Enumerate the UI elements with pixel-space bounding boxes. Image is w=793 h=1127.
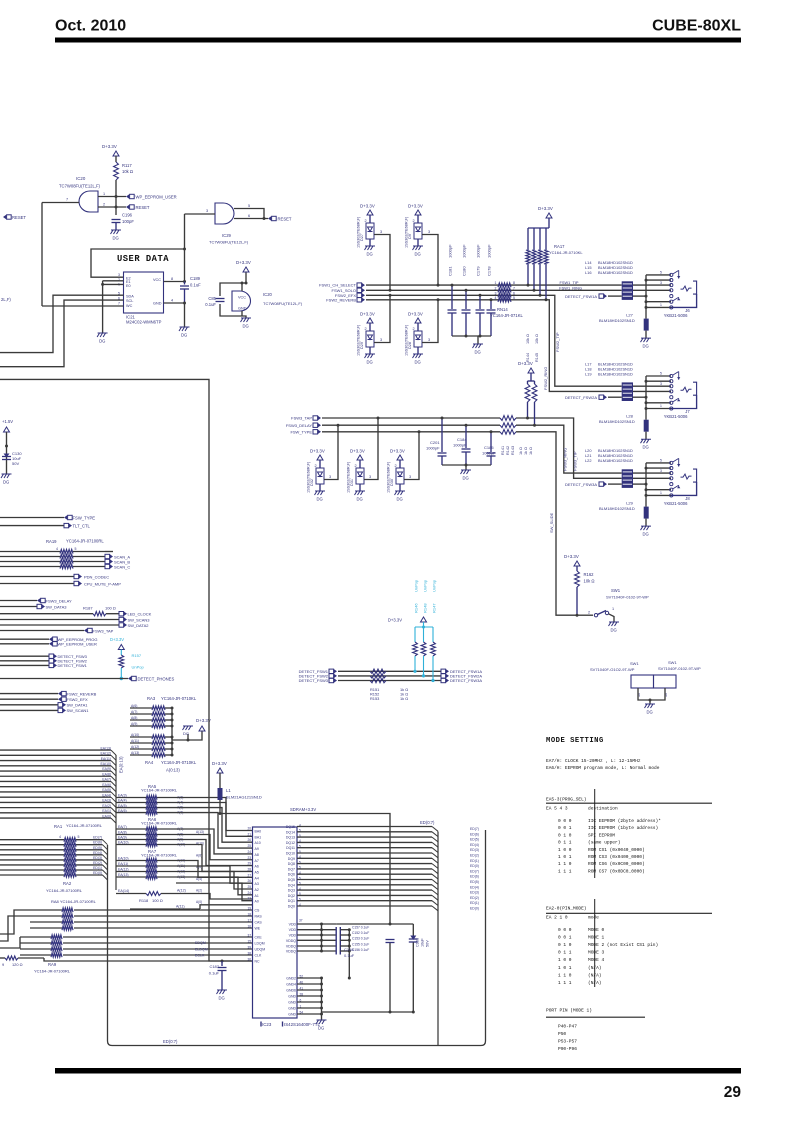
svg-text:C151: C151 [416,938,420,947]
svg-text:1: 1 [660,404,662,408]
resistor R144 pullup [528,368,534,373]
svg-text:3: 3 [428,230,430,234]
jack plug squiggle [681,286,692,291]
frame bottom with rounded corners [108,830,486,1046]
svg-text:0 0 1: 0 0 1 [558,825,572,831]
svg-text:8: 8 [171,277,173,281]
svg-text:YC164-JR-071KL: YC164-JR-071KL [490,313,523,318]
wire IC29 input pin3 [185,213,216,215]
svg-text:EA(9): EA(9) [102,767,111,771]
svg-text:6: 6 [513,291,515,295]
svg-text:DG: DG [611,628,617,633]
svg-text:FSW2_REVERB: FSW2_REVERB [326,297,356,302]
ground (C201/C184/C185) [461,470,472,474]
wire D28 pin3 [422,300,438,343]
svg-text:(N/A): (N/A) [588,972,602,978]
svg-text:EA(2): EA(2) [102,804,111,808]
svg-text:VDDQ: VDDQ [286,950,296,954]
svg-text:3: 3 [118,273,120,277]
wire RA4 common to power [172,731,202,740]
svg-text:3: 3 [369,475,371,479]
svg-text:10k Ω: 10k Ω [526,334,530,344]
svg-text:R144: R144 [526,353,530,362]
svg-text:5: 5 [75,547,77,551]
svg-text:D+3.3V: D+3.3V [236,260,251,265]
wire DETECT_FSW2 line [338,675,441,677]
svg-text:IC23: IC23 [262,1022,272,1027]
svg-text:1000pF: 1000pF [462,244,467,258]
resistor R152 (inline) [370,674,386,678]
capacitor C85 [216,298,225,300]
svg-text:DG: DG [643,532,649,537]
svg-text:0 0 1: 0 0 1 [558,935,572,941]
svg-text:ROM CS1 (0x0040_0000): ROM CS1 (0x0040_0000) [588,847,645,853]
svg-text:BLM18HD102SN1D: BLM18HD102SN1D [599,318,635,323]
svg-text:EA(3): EA(3) [102,799,111,803]
svg-text:GND4: GND4 [286,983,296,987]
svg-text:0.1uF: 0.1uF [344,953,355,958]
svg-text:100 Ω: 100 Ω [152,898,163,903]
svg-text:3: 3 [409,475,411,479]
svg-text:1 0 0: 1 0 0 [558,957,572,963]
svg-text:ED(3): ED(3) [470,891,479,895]
svg-text:ED(6): ED(6) [93,841,102,845]
jack sleeve [693,382,697,395]
svg-text:DETECT_FSW3A: DETECT_FSW3A [565,482,597,487]
svg-text:IIC EEPROM (1byte address): IIC EEPROM (1byte address) [588,825,658,831]
svg-text:A10: A10 [255,841,261,845]
svg-text:C187: C187 [209,964,219,969]
svg-text:5: 5 [660,372,662,376]
net arrow WP_EEPROM_PROG [0,638,49,640]
wire vertical VCC net x=184 [184,214,186,282]
svg-text:18: 18 [247,913,251,917]
svg-text:DQ1: DQ1 [288,899,295,903]
svg-text:36: 36 [247,958,251,962]
svg-text:UnPop: UnPop [432,579,437,592]
svg-text:R148: R148 [423,603,428,613]
svg-text:5: 5 [78,835,80,839]
svg-text:1: 1 [495,281,497,285]
resistor array RA4 [130,736,152,738]
svg-text:+1.5V: +1.5V [2,419,13,424]
svg-text:0.1uF: 0.1uF [190,283,201,288]
svg-text:R142: R142 [506,446,510,455]
svg-text:DQ10: DQ10 [286,852,295,856]
svg-text:M24C02-WMN6TP: M24C02-WMN6TP [126,320,162,325]
diode D9 1SS302 [415,210,421,215]
svg-text:C158: C158 [344,947,354,952]
svg-text:D9: D9 [408,234,412,239]
svg-text:1k Ω: 1k Ω [519,447,523,455]
svg-text:DQ14: DQ14 [286,830,295,834]
svg-text:21: 21 [247,832,251,836]
svg-text:CS: CS [255,909,261,913]
svg-text:D+3.3V: D+3.3V [390,449,405,454]
svg-text:0.1uF: 0.1uF [205,302,216,307]
svg-text:DG: DG [463,476,469,481]
wire FSW_TYPE line [322,431,500,433]
power D+3.3V (IC20) [243,267,249,272]
svg-text:10k Ω: 10k Ω [122,169,133,174]
svg-text:DQ15: DQ15 [286,825,295,829]
svg-text:RA4: RA4 [145,760,154,765]
net arrow TLT_CTL [0,525,64,527]
ground stub (RA3 area) [187,734,189,740]
svg-text:VDD: VDD [289,928,297,932]
net arrow CPU_MUTE_P-AMP [0,583,74,585]
svg-text:ED(0): ED(0) [93,871,102,875]
diode D27 1SS302 [367,210,373,215]
svg-text:ED(0:7): ED(0:7) [163,1039,178,1044]
svg-text:1 1 0: 1 1 0 [558,861,572,867]
svg-text:A5: A5 [255,870,259,874]
wire jack pin stubs [646,375,671,377]
ground (C178-C181) [473,344,484,348]
svg-text:DETECT_FSW1: DETECT_FSW1 [58,663,88,668]
svg-text:TC7W08FU(TE12L,F): TC7W08FU(TE12L,F) [59,184,101,189]
svg-text:A7: A7 [255,859,259,863]
capacitor C189 [184,282,186,285]
ic IC21 M24C02 box [124,272,164,313]
svg-text:CPU_MUTE_P-AMP: CPU_MUTE_P-AMP [84,581,121,586]
svg-text:R143: R143 [511,446,515,455]
svg-text:L28: L28 [626,414,633,419]
wire bead outputs [633,385,671,387]
svg-text:NC: NC [255,960,261,964]
svg-text:EA(11): EA(11) [118,862,128,866]
svg-text:RA17: RA17 [554,244,565,249]
svg-text:R157: R157 [132,653,142,658]
svg-text:2: 2 [413,327,415,331]
svg-text:A(6): A(6) [131,704,137,708]
svg-text:SPI EEPROM: SPI EEPROM [588,832,615,838]
svg-text:BA0: BA0 [255,830,262,834]
wire VDD top row to rail [336,923,413,925]
svg-text:RESET: RESET [12,215,26,220]
svg-text:RA9: RA9 [48,962,57,967]
svg-text:ED(6): ED(6) [470,832,479,836]
svg-text:D31: D31 [350,479,354,486]
svg-text:VCC: VCC [153,278,161,282]
svg-text:DG: DG [357,497,363,502]
svg-text:3: 3 [660,382,662,386]
svg-text:(N/A): (N/A) [588,980,602,986]
svg-text:1000pF: 1000pF [476,244,481,258]
svg-text:37: 37 [247,934,251,938]
svg-text:FSW3_DELAY: FSW3_DELAY [46,598,72,603]
svg-text:RESET: RESET [278,216,292,221]
wire cap common to ground [452,335,491,337]
wire FSW2_RING bus line [366,300,622,392]
svg-text:D+3.3V: D+3.3V [212,761,227,766]
svg-text:A(9): A(9) [131,722,137,726]
wire D27 pin3 [374,235,390,291]
svg-text:EA(12): EA(12) [100,752,111,756]
svg-text:UDQM: UDQM [255,948,266,952]
svg-text:A(10): A(10) [131,733,139,737]
wire bead outputs [633,284,671,286]
svg-text:26: 26 [247,838,251,842]
net arrow PDN_CODEC [0,576,74,578]
svg-text:DETECT_PHONES: DETECT_PHONES [138,676,175,681]
svg-text:DG: DG [99,339,105,344]
svg-text:100 Ω: 100 Ω [105,606,116,611]
svg-text:YC164-JR-07100RL: YC164-JR-07100RL [141,853,178,858]
svg-text:C196: C196 [122,213,133,218]
svg-text:A8: A8 [255,853,259,857]
svg-text:120 Ω: 120 Ω [12,962,23,967]
svg-text:Oct. 2010: Oct. 2010 [55,18,126,35]
ground (J6) [641,338,652,342]
wire FSW1_TIP bus line [366,284,622,286]
jack plug squiggle [681,387,692,392]
ground (IC21 E pins) [97,333,108,337]
svg-text:YKB21-5006: YKB21-5006 [664,313,688,318]
wire SCL from left [0,300,124,367]
svg-text:IC20: IC20 [263,292,273,297]
svg-text:A2: A2 [255,888,259,892]
svg-text:WE: WE [255,927,261,931]
svg-text:1SS302(TE68R,F): 1SS302(TE68R,F) [357,324,361,356]
svg-text:EA(12): EA(12) [118,868,129,872]
wire R117 to node [115,180,117,197]
svg-text:BLM18HD102SN1D: BLM18HD102SN1D [598,371,633,376]
wire long net from left (clock) [0,379,253,961]
svg-text:FSW3_TIP: FSW3_TIP [572,451,577,471]
op-amp IC29 AND gate [215,203,234,224]
svg-text:2: 2 [413,219,415,223]
svg-text:3: 3 [660,281,662,285]
net arrow WP_EEPROM_USER [126,194,129,198]
svg-text:YC164-JR-07100RL: YC164-JR-07100RL [141,821,178,826]
svg-text:SDA: SDA [126,294,134,298]
footer rule [55,1068,741,1074]
ground (SW1) [609,622,620,626]
wire D30 pin3 [404,432,419,480]
wire gate pin1 to WP_EEPROM_USER [98,196,126,198]
svg-text:GND: GND [288,1013,296,1017]
ic IC20 power pins block [220,272,246,296]
resistor array RN14 [498,283,511,287]
svg-text:1 1 1: 1 1 1 [558,868,572,874]
svg-text:R118: R118 [139,898,149,903]
svg-text:ED(7): ED(7) [470,869,479,873]
svg-text:C189: C189 [190,276,201,281]
svg-text:A4: A4 [255,876,259,880]
svg-text:0 1 0: 0 1 0 [558,832,572,838]
diode D28 1SS302 [415,318,421,323]
svg-text:SW1: SW1 [611,588,621,593]
ferrite bead block L14/L15/L16 [622,281,633,300]
svg-text:EA(13): EA(13) [118,873,129,877]
svg-text:D+3.3V: D+3.3V [564,554,579,559]
svg-text:A(8): A(8) [196,853,202,857]
svg-text:0 0 0: 0 0 0 [558,818,572,824]
capacitor C151 (polarized) [412,924,414,937]
net arrow SW_SCAN1 [0,709,58,711]
ground (J8) [641,526,652,530]
svg-text:SW1: SW1 [668,660,677,665]
resistor R148 [423,627,425,642]
svg-text:LDQM: LDQM [255,942,265,946]
wire DETECT_FSW3 line [338,680,441,682]
svg-text:4: 4 [171,299,173,303]
svg-text:TC7W08FU(TE12L,F): TC7W08FU(TE12L,F) [263,301,303,306]
wire caps to ground row [348,930,350,978]
net arrow SW_DATA3 [0,606,37,608]
svg-text:CUBE-80XL: CUBE-80XL [652,18,741,35]
svg-text:2L,F): 2L,F) [1,297,11,302]
wire SW_SLIDE vertical to SW1 [516,432,577,615]
left stubs for RA8/RA9 [0,910,30,934]
ferrite bead L1 [218,788,223,800]
svg-text:A1: A1 [255,894,259,898]
svg-text:15: 15 [247,940,251,944]
svg-text:SCL: SCL [126,299,133,303]
wire ground bus x=102.6 [102,281,104,333]
svg-text:3: 3 [660,469,662,473]
svg-text:D+3.3V: D+3.3V [388,618,402,623]
svg-text:4: 4 [56,547,58,551]
svg-text:EA2-0(PIN_MODE): EA2-0(PIN_MODE) [546,906,587,912]
svg-text:C156 0.1uF: C156 0.1uF [352,948,369,952]
svg-text:A(11): A(11) [131,739,139,743]
svg-text:DQ2: DQ2 [288,894,295,898]
wire GND pin4 [164,302,185,304]
svg-text:1SS302(TE68R,F): 1SS302(TE68R,F) [307,461,311,493]
svg-text:R147: R147 [432,603,437,613]
svg-text:23: 23 [247,897,251,901]
svg-text:2: 2 [103,203,105,207]
svg-text:1SS302(TE68R,F): 1SS302(TE68R,F) [357,216,361,248]
svg-text:destination: destination [588,806,618,812]
svg-text:1k Ω: 1k Ω [400,696,408,701]
svg-text:MODE 1: MODE 1 [588,935,605,941]
svg-text:DG: DG [643,344,649,349]
svg-text:1SS302(TE68R,F): 1SS302(TE68R,F) [405,324,409,356]
ground (C130) [1,474,12,478]
svg-text:FSW3_TAP: FSW3_TAP [291,416,312,421]
wire WC from gate [42,305,124,307]
svg-text:FSW3_RING: FSW3_RING [563,448,568,471]
svg-text:29: 29 [247,862,251,866]
svg-text:2: 2 [495,286,497,290]
svg-text:DETECT_FSW2A: DETECT_FSW2A [565,395,597,400]
svg-text:EA(10): EA(10) [118,857,129,861]
svg-text:DG: DG [415,360,421,365]
decoupling caps C157 C152 C153 C155 C156 [335,927,337,955]
svg-text:D+3.3V: D+3.3V [360,312,375,317]
svg-text:EA(6): EA(6) [102,783,111,787]
svg-text:TLT_CTL: TLT_CTL [73,523,91,528]
svg-text:EA 5 4 3: EA 5 4 3 [546,806,568,812]
bus vertical EA(0:13) [115,755,117,890]
ground (IC23) [316,1020,327,1024]
svg-text:C179: C179 [476,266,481,276]
svg-text:25: 25 [247,844,251,848]
svg-text:24: 24 [247,850,251,854]
svg-text:D+3.3V: D+3.3V [310,449,325,454]
net arrow FSW3_DELAY (left) [0,600,37,602]
wire FSW2_TIP bus line [366,295,622,386]
svg-text:4: 4 [495,296,497,300]
svg-text:1: 1 [612,607,614,611]
wire gnd rail bottom [322,1011,414,1013]
svg-text:DG: DG [183,731,189,736]
wire jack pin collector [645,376,647,409]
svg-text:DQ9: DQ9 [288,857,295,861]
ground (C187) [217,990,228,994]
svg-text:1 1 1: 1 1 1 [558,980,572,986]
svg-text:EA(0:13): EA(0:13) [119,756,124,773]
svg-text:MODE 4: MODE 4 [588,957,605,963]
svg-text:3: 3 [495,291,497,295]
svg-text:GND6: GND6 [286,989,296,993]
capacitor C196 [112,219,121,221]
svg-text:25: 25 [247,885,251,889]
svg-text:LED_CLOCK: LED_CLOCK [128,612,152,617]
svg-text:EA(0): EA(0) [102,814,111,818]
svg-text:mode: mode [588,915,599,921]
power D+3.3V (RA17) [546,213,552,218]
wire SDA from left [0,295,124,352]
svg-text:ED(4): ED(4) [93,851,102,855]
svg-text:DG: DG [367,252,373,257]
svg-text:1 1 0: 1 1 0 [558,972,572,978]
address staircase wires to IC23 [176,798,253,831]
svg-text:10uF: 10uF [421,938,425,947]
svg-text:17: 17 [247,919,251,923]
svg-text:IIC EEPROM (2byte address)*: IIC EEPROM (2byte address)* [588,818,661,824]
table vertical rule 1 [594,789,596,878]
diode D30 1SS302 [397,455,403,460]
svg-text:FSW2_TIP: FSW2_TIP [555,332,560,352]
svg-text:RAS: RAS [255,915,263,919]
capacitor C130 (polarized) [2,456,11,458]
net arrow DETECT_FSW3A [441,678,446,682]
jack switch contacts [673,372,679,376]
svg-text:DETECT_FSW1A: DETECT_FSW1A [565,294,597,299]
svg-text:R187: R187 [83,606,93,611]
svg-text:A(7): A(7) [131,710,137,714]
ic IC23 SDRAM box [253,827,298,1018]
resistor array RA17 [526,250,530,264]
svg-text:50V: 50V [426,940,430,947]
svg-text:ROM CS3 (0x0400_0000): ROM CS3 (0x0400_0000) [588,854,645,860]
svg-text:D28: D28 [408,342,412,349]
wire caps to ground [442,464,491,466]
svg-text:DG: DG [643,445,649,450]
wire FSW3_TAP line [322,417,500,419]
power D+3.3V (R117) [113,151,119,156]
svg-text:C201: C201 [430,440,440,445]
svg-text:1SS302(TE68R,F): 1SS302(TE68R,F) [387,461,391,493]
svg-text:4: 4 [59,835,61,839]
svg-text:BLM21AG121SN1D: BLM21AG121SN1D [226,795,262,800]
svg-text:EA(7): EA(7) [102,778,111,782]
net arrow LED_CLOCK [119,612,124,616]
resistor array RA2 [0,859,64,861]
svg-text:38: 38 [247,952,251,956]
svg-text:FSW2_EFX: FSW2_EFX [67,697,88,702]
svg-text:USER DATA: USER DATA [117,254,169,264]
wire gate input from below [41,203,43,307]
svg-text:7: 7 [118,302,120,306]
svg-text:ED(6): ED(6) [470,875,479,879]
svg-text:CLK: CLK [255,954,262,958]
svg-text:ED(2): ED(2) [93,861,102,865]
